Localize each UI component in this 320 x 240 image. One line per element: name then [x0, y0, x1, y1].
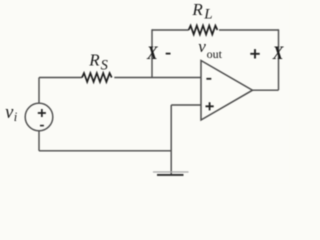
- svg-text:v: v: [198, 37, 206, 56]
- plus sign (vout polarity right): [250, 49, 259, 58]
- resistor RS: [82, 73, 112, 82]
- wire source bottom vertical: [38, 131, 40, 151]
- ground: [153, 171, 189, 173]
- svg-text:i: i: [14, 110, 18, 124]
- wire bottom horizontal: [39, 150, 171, 152]
- wire from source through RS to op-amp: [39, 77, 82, 79]
- svg-text:out: out: [207, 47, 223, 61]
- svg-text:X: X: [146, 42, 158, 64]
- wire left vertical (node X left): [151, 29, 153, 77]
- resistor RL: [189, 26, 218, 35]
- wire top-left segment: [152, 29, 189, 31]
- op-amp U1: [201, 61, 253, 121]
- plus sign inside source: [38, 109, 46, 117]
- wire top-right segment: [219, 29, 279, 31]
- wire source top vertical: [38, 78, 40, 104]
- wire plus input horizontal: [171, 104, 201, 106]
- svg-text:X: X: [272, 42, 284, 64]
- wire ground vertical: [170, 105, 172, 175]
- minus sign op-amp input: [206, 78, 211, 80]
- wire RS to op-amp minus input: [114, 77, 201, 79]
- minus sign inside source: [40, 125, 44, 127]
- plus sign op-amp input: [206, 102, 214, 110]
- wire right vertical: [278, 29, 280, 90]
- voltage source vi circle: [25, 103, 53, 131]
- minus sign (vout polarity left): [166, 53, 171, 55]
- wire output: [253, 89, 279, 91]
